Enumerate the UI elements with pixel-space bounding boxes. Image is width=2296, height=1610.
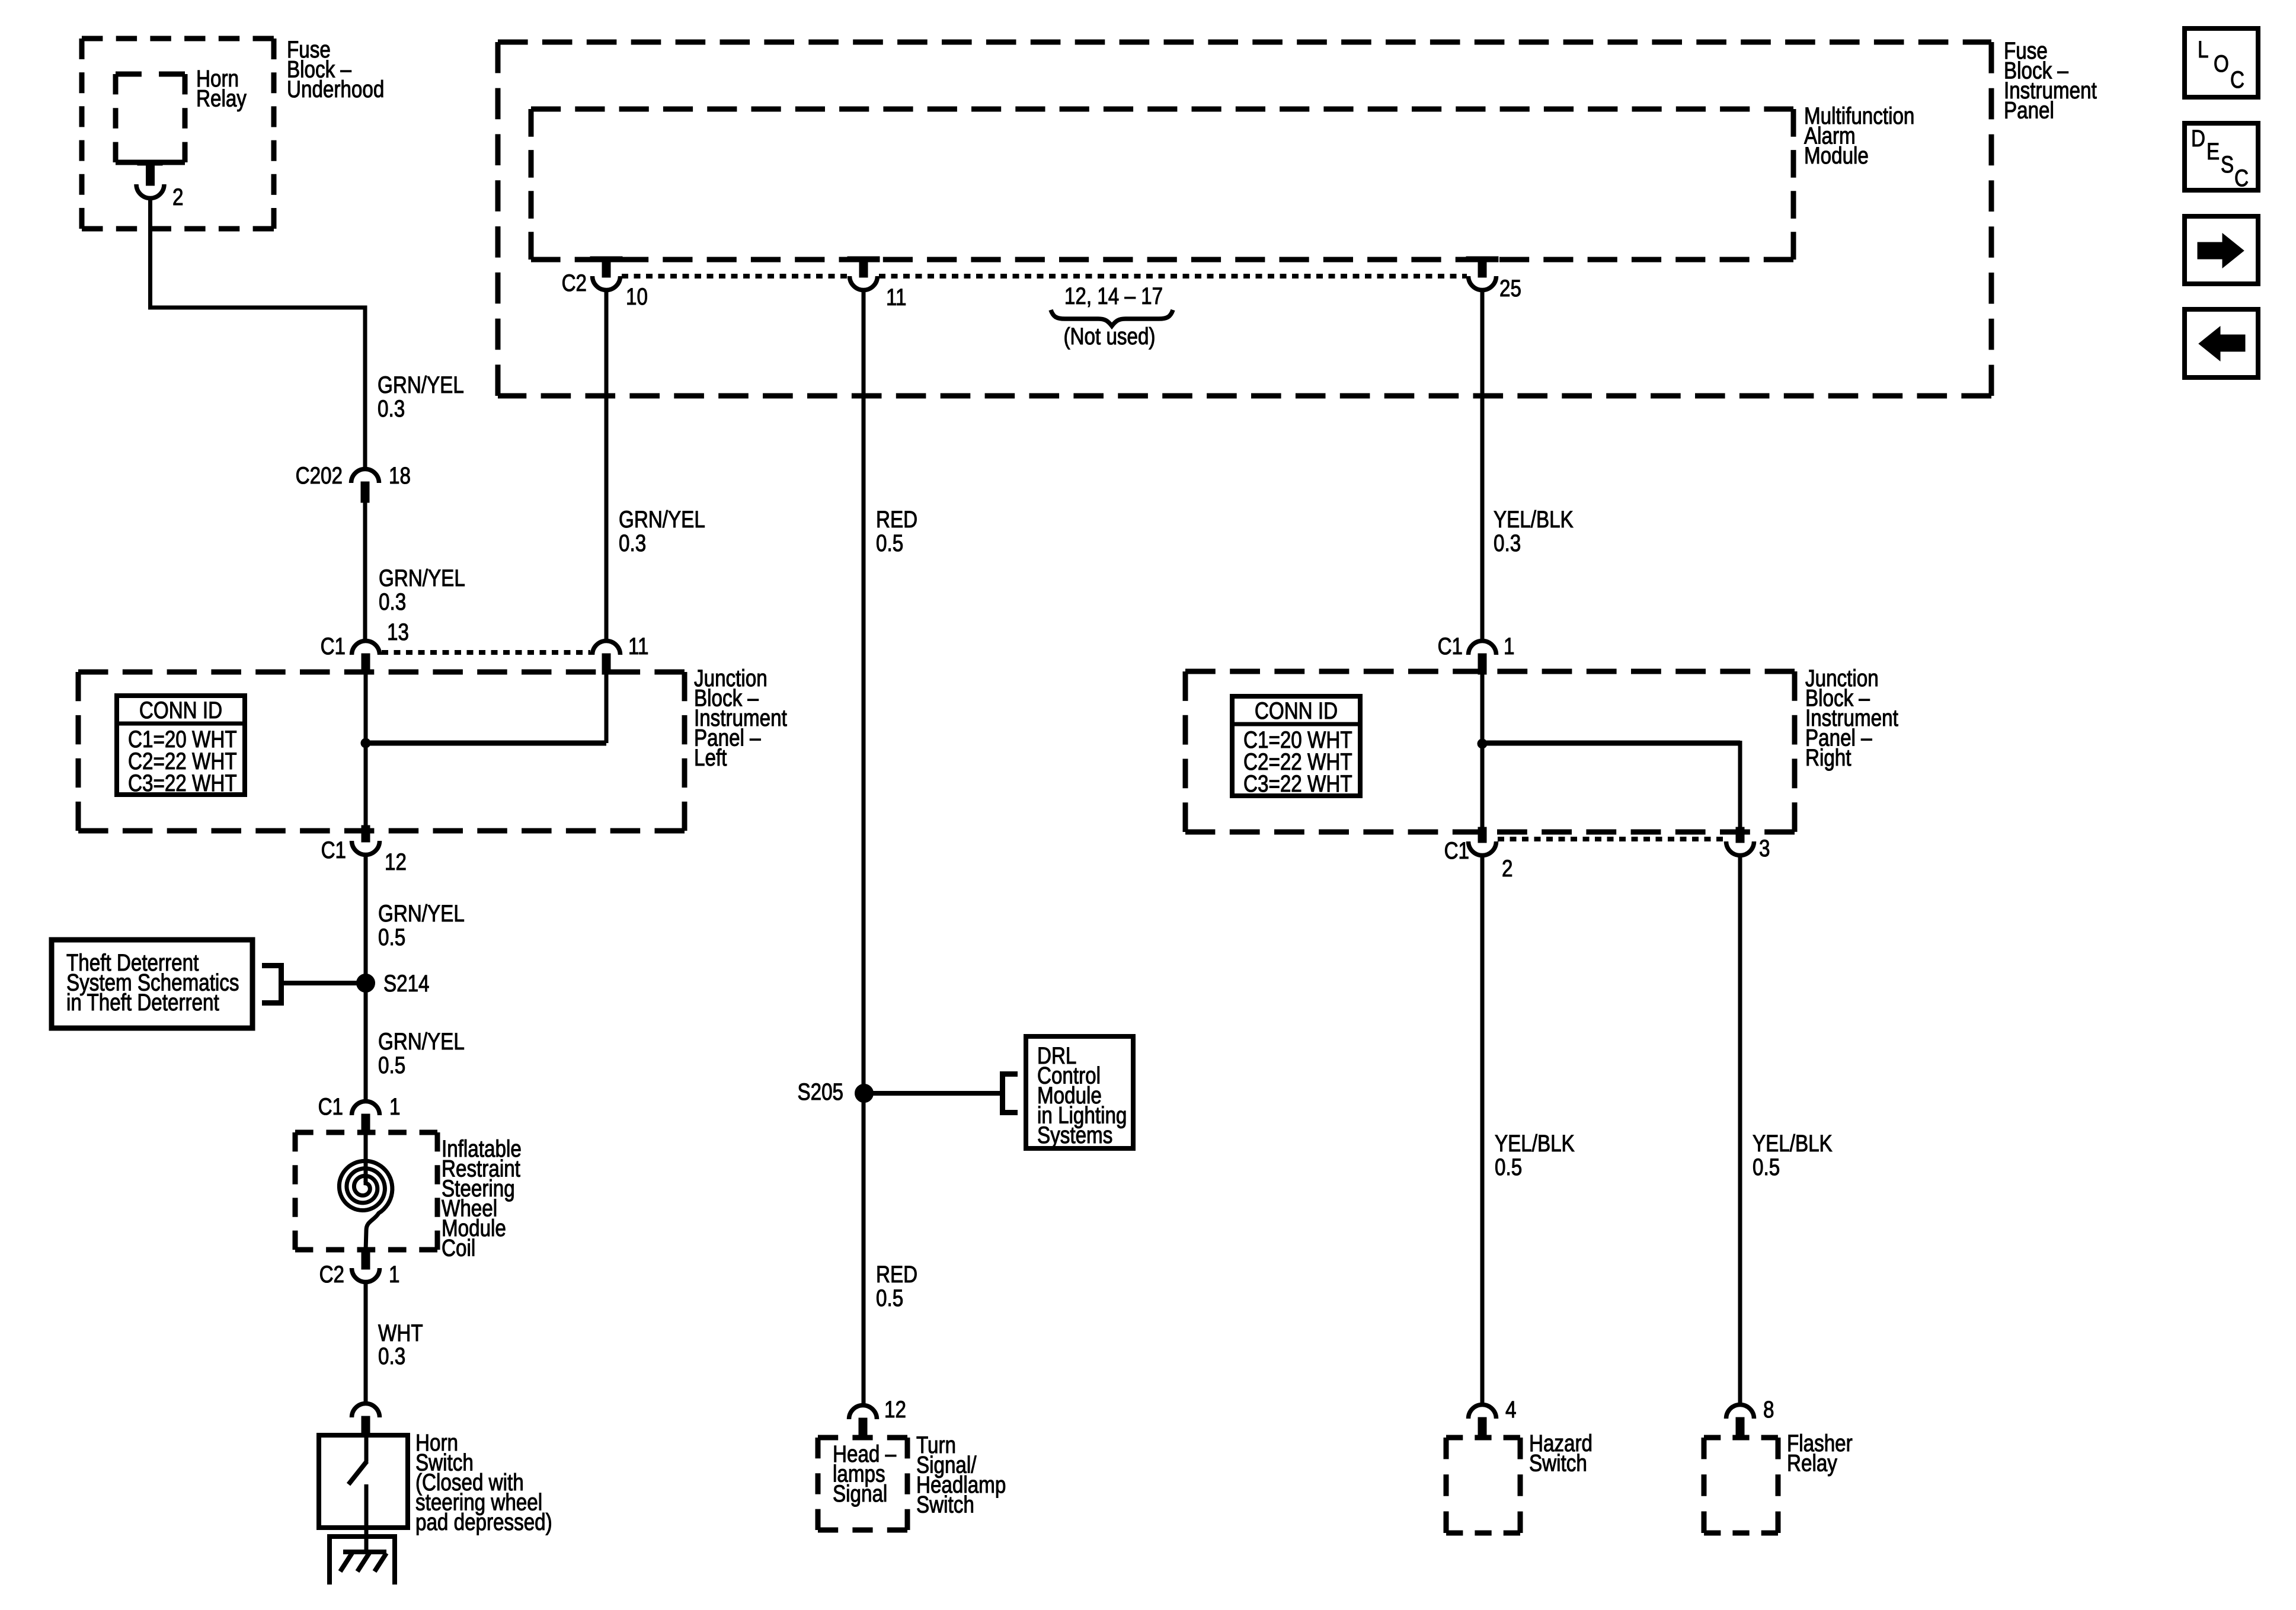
svg-text:E: E bbox=[2207, 139, 2220, 165]
svg-text:GRN/YEL: GRN/YEL bbox=[379, 565, 465, 591]
svg-text:GRN/YEL: GRN/YEL bbox=[619, 507, 705, 533]
ground symbol bbox=[330, 1537, 395, 1585]
svg-text:C1: C1 bbox=[321, 837, 346, 863]
svg-text:0.5: 0.5 bbox=[378, 1052, 405, 1078]
inflatable restraint steering wheel module coil (dashed box) bbox=[295, 1130, 437, 1135]
svg-text:0.5: 0.5 bbox=[378, 924, 405, 950]
junction node (left junction block) bbox=[361, 738, 370, 748]
svg-text:Relay: Relay bbox=[196, 86, 247, 112]
svg-text:0.5: 0.5 bbox=[1753, 1154, 1780, 1180]
svg-text:S205: S205 bbox=[798, 1079, 844, 1105]
svg-text:GRN/YEL: GRN/YEL bbox=[378, 901, 465, 927]
svg-text:Switch: Switch bbox=[916, 1492, 974, 1518]
splice S214 bbox=[357, 974, 375, 993]
svg-text:in Theft Deterrent: in Theft Deterrent bbox=[66, 990, 219, 1016]
svg-text:L: L bbox=[2198, 37, 2209, 63]
svg-text:S214: S214 bbox=[383, 971, 430, 997]
svg-text:C2: C2 bbox=[562, 270, 587, 296]
svg-text:C: C bbox=[2230, 67, 2244, 93]
svg-text:0.5: 0.5 bbox=[876, 530, 903, 556]
connector C1 pin 2 (junction block right bottom) bbox=[1478, 827, 1486, 843]
wire: C202 to junction block C1-13 bbox=[363, 502, 367, 642]
back arrow box bbox=[2185, 309, 2258, 377]
junction block - instrument panel - left (dashed box) bbox=[78, 670, 685, 675]
wire: C2-1 to horn switch bbox=[364, 1280, 368, 1404]
wire: C2-25 down (YEL/BLK) bbox=[1480, 289, 1485, 642]
connector C1 pin 12 (junction block left bottom) bbox=[362, 825, 370, 842]
svg-text:RED: RED bbox=[876, 1262, 917, 1288]
svg-text:0.3: 0.3 bbox=[379, 589, 406, 615]
svg-text:C1: C1 bbox=[321, 633, 346, 660]
svg-text:Switch: Switch bbox=[1529, 1451, 1587, 1477]
svg-text:Right: Right bbox=[1805, 745, 1851, 771]
splice S205 bbox=[855, 1084, 874, 1103]
svg-text:C: C bbox=[2234, 165, 2249, 191]
theft deterrent reference box bbox=[52, 940, 252, 1028]
horn relay pin 2 connector bbox=[137, 160, 162, 165]
svg-text:0.3: 0.3 bbox=[619, 530, 646, 556]
fuse block - underhood (dashed box) bbox=[82, 36, 274, 41]
svg-text:0.3: 0.3 bbox=[378, 1343, 405, 1369]
svg-text:O: O bbox=[2214, 51, 2229, 77]
svg-text:WHT: WHT bbox=[378, 1320, 423, 1346]
svg-text:2: 2 bbox=[1502, 856, 1513, 882]
forward arrow box bbox=[2185, 216, 2258, 284]
svg-text:0.5: 0.5 bbox=[1495, 1154, 1522, 1180]
svg-text:12, 14 – 17: 12, 14 – 17 bbox=[1064, 283, 1163, 309]
svg-text:8: 8 bbox=[1763, 1397, 1774, 1423]
svg-text:S: S bbox=[2221, 152, 2234, 178]
connector line C1 (dotted) pins 2 to 3 bbox=[1498, 837, 1725, 841]
horn relay (dashed box) bbox=[116, 72, 185, 77]
svg-text:0.3: 0.3 bbox=[378, 396, 405, 422]
CONN ID table (right) bbox=[1232, 696, 1360, 796]
svg-text:C1: C1 bbox=[318, 1094, 343, 1120]
connector pin 3 (junction block right bottom) bbox=[1736, 827, 1744, 843]
svg-text:Systems: Systems bbox=[1037, 1122, 1112, 1148]
svg-text:2: 2 bbox=[172, 184, 184, 210]
svg-text:1: 1 bbox=[389, 1262, 400, 1288]
turn signal connector pin 12 bbox=[849, 1406, 877, 1420]
svg-text:YEL/BLK: YEL/BLK bbox=[1753, 1131, 1833, 1157]
svg-text:Panel: Panel bbox=[2004, 98, 2054, 124]
svg-text:pad depressed): pad depressed) bbox=[415, 1509, 552, 1535]
connector C1 pin 13 (junction block left) bbox=[352, 641, 380, 655]
junction node (right junction block) bbox=[1478, 739, 1487, 748]
DESC box bbox=[2185, 123, 2258, 190]
svg-text:RED: RED bbox=[876, 507, 917, 533]
svg-text:Coil: Coil bbox=[442, 1235, 475, 1262]
svg-text:13: 13 bbox=[387, 619, 409, 645]
wire: pin 11 drop bbox=[605, 674, 609, 743]
multifunction alarm module (dashed box) bbox=[531, 107, 1793, 112]
CONN ID table (left) bbox=[117, 696, 245, 795]
DRL bracket bbox=[1003, 1074, 1018, 1113]
svg-text:3: 3 bbox=[1759, 836, 1770, 862]
svg-text:D: D bbox=[2191, 126, 2205, 152]
module connector C2 pin 11 bbox=[848, 257, 880, 262]
svg-text:C2: C2 bbox=[319, 1262, 344, 1288]
svg-text:YEL/BLK: YEL/BLK bbox=[1494, 507, 1574, 533]
svg-text:11: 11 bbox=[628, 633, 649, 660]
module connector C2 pin 25 bbox=[1466, 257, 1498, 262]
connector C1 pin 1 (steering wheel coil) bbox=[352, 1102, 380, 1116]
connector C2 pin 1 (below coil) bbox=[362, 1251, 370, 1269]
junction block - instrument panel - right (dashed box) bbox=[1185, 669, 1795, 674]
wire: bracket to S214 bbox=[284, 981, 366, 985]
svg-text:CONN ID: CONN ID bbox=[139, 697, 222, 724]
headlamps signal (dashed box) bbox=[818, 1435, 907, 1441]
wire: C2-10 to junction pin 11 bbox=[605, 289, 609, 642]
svg-text:1: 1 bbox=[389, 1094, 401, 1120]
coil spiral bbox=[339, 1161, 392, 1251]
svg-text:0.3: 0.3 bbox=[1494, 530, 1521, 556]
underbrace bbox=[1051, 310, 1173, 326]
svg-text:4: 4 bbox=[1505, 1397, 1517, 1423]
svg-text:Relay: Relay bbox=[1787, 1451, 1837, 1477]
theft deterrent bracket bbox=[262, 966, 282, 1003]
svg-text:25: 25 bbox=[1499, 276, 1521, 302]
connector C1 pin 11 (junction block left) bbox=[593, 641, 621, 655]
horn switch connector bbox=[352, 1404, 380, 1418]
svg-text:C1: C1 bbox=[1444, 838, 1469, 864]
DRL control module reference box bbox=[1026, 1036, 1133, 1148]
hazard switch pin 4 connector bbox=[1469, 1405, 1496, 1419]
wire: C1-13 down inside junction block bbox=[364, 674, 368, 828]
svg-text:GRN/YEL: GRN/YEL bbox=[378, 372, 464, 398]
svg-text:1: 1 bbox=[1504, 633, 1515, 660]
wire: horn relay pin 2 to C202 bbox=[148, 196, 152, 310]
wire: pin 3 to flasher relay (YEL/BLK) bbox=[1738, 853, 1742, 1406]
wire: coil entry bbox=[364, 1135, 368, 1185]
wire: C1-12 to S214 bbox=[364, 853, 368, 983]
wire: C2-11 down (RED) bbox=[862, 289, 866, 1406]
svg-text:GRN/YEL: GRN/YEL bbox=[378, 1029, 465, 1055]
svg-text:C3=22 WHT: C3=22 WHT bbox=[1243, 771, 1352, 797]
connector line C2 (dotted) bbox=[622, 274, 848, 279]
fuse block - instrument panel (dashed box) bbox=[498, 40, 1991, 45]
svg-text:C3=22 WHT: C3=22 WHT bbox=[128, 770, 237, 796]
connector line C1 (dotted) pins 13 to 11 bbox=[382, 650, 590, 655]
wire: S205 to DRL bracket bbox=[864, 1091, 1000, 1096]
svg-text:CONN ID: CONN ID bbox=[1255, 698, 1338, 724]
flasher relay (dashed box) bbox=[1704, 1435, 1778, 1441]
svg-text:(Not used): (Not used) bbox=[1064, 324, 1156, 350]
svg-text:10: 10 bbox=[626, 284, 648, 310]
wire: junction to pin 3 (horizontal+vertical) bbox=[1482, 741, 1740, 746]
svg-text:12: 12 bbox=[884, 1397, 906, 1423]
flasher relay pin 8 connector bbox=[1726, 1405, 1754, 1419]
module connector C2 pin 10 bbox=[590, 257, 622, 262]
svg-text:Module: Module bbox=[1804, 143, 1869, 169]
svg-text:Signal: Signal bbox=[833, 1481, 887, 1507]
svg-text:18: 18 bbox=[389, 463, 411, 489]
LOC box bbox=[2185, 28, 2258, 97]
horn switch contacts bbox=[364, 1438, 369, 1462]
connector C1 pin 1 (junction block right) bbox=[1469, 641, 1496, 655]
horn switch box bbox=[319, 1435, 408, 1528]
wire: C1-2 to hazard switch (YEL/BLK) bbox=[1480, 853, 1485, 1406]
svg-text:0.5: 0.5 bbox=[876, 1285, 903, 1311]
svg-text:C1: C1 bbox=[1438, 633, 1463, 660]
svg-text:12: 12 bbox=[385, 849, 407, 875]
svg-text:Left: Left bbox=[694, 745, 727, 771]
wire: S214 to coil C1-1 bbox=[364, 983, 368, 1102]
connector C202 pin 18 bbox=[351, 469, 379, 484]
svg-text:YEL/BLK: YEL/BLK bbox=[1495, 1131, 1575, 1157]
svg-text:C202: C202 bbox=[296, 463, 343, 489]
svg-text:11: 11 bbox=[886, 284, 907, 311]
svg-text:Underhood: Underhood bbox=[287, 76, 384, 103]
hazard switch (dashed box) bbox=[1446, 1435, 1520, 1441]
wire: C1-1 down inside junction block right bbox=[1480, 674, 1485, 830]
wire: junction to pin 11 (horizontal) bbox=[366, 741, 606, 746]
